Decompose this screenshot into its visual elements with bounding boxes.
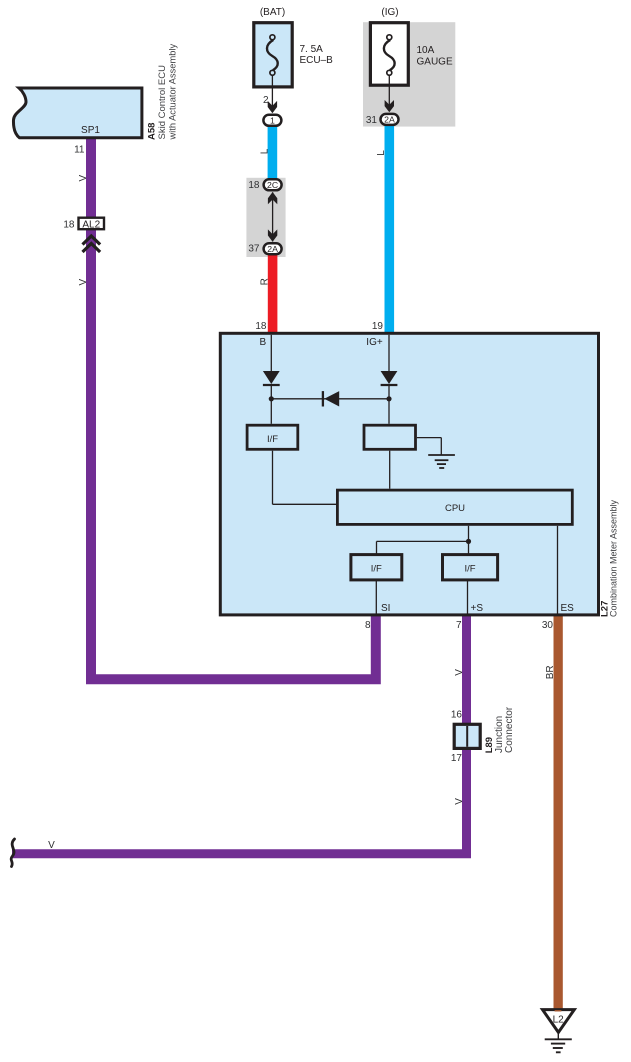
svg-text:A58: A58 bbox=[147, 123, 158, 140]
svg-text:7. 5A: 7. 5A bbox=[300, 44, 324, 55]
svg-text:18: 18 bbox=[248, 180, 260, 191]
svg-text:L: L bbox=[259, 148, 270, 154]
svg-text:37: 37 bbox=[248, 244, 260, 255]
svg-text:V: V bbox=[454, 669, 465, 676]
svg-text:17: 17 bbox=[451, 753, 463, 764]
svg-text:10A: 10A bbox=[417, 45, 435, 56]
svg-text:19: 19 bbox=[372, 321, 384, 332]
svg-text:7: 7 bbox=[456, 620, 462, 631]
svg-text:R: R bbox=[260, 278, 271, 285]
svg-text:V: V bbox=[78, 279, 89, 286]
svg-text:SI: SI bbox=[381, 603, 390, 614]
svg-text:2A: 2A bbox=[267, 244, 278, 254]
svg-text:BR: BR bbox=[545, 665, 556, 679]
svg-text:2A: 2A bbox=[384, 115, 395, 125]
svg-text:L2: L2 bbox=[553, 1014, 565, 1025]
svg-text:(IG): (IG) bbox=[381, 7, 398, 18]
svg-text:8: 8 bbox=[365, 620, 371, 631]
svg-text:Combination Meter Assembly: Combination Meter Assembly bbox=[609, 499, 619, 617]
svg-text:2C: 2C bbox=[267, 180, 278, 190]
svg-text:V: V bbox=[78, 175, 89, 182]
svg-text:SP1: SP1 bbox=[81, 125, 100, 136]
svg-text:ES: ES bbox=[561, 603, 575, 614]
svg-text:18: 18 bbox=[255, 321, 267, 332]
svg-text:31: 31 bbox=[366, 115, 378, 126]
svg-text:I/F: I/F bbox=[371, 564, 382, 575]
svg-text:I/F: I/F bbox=[464, 564, 475, 575]
svg-text:AL2: AL2 bbox=[82, 219, 100, 230]
svg-text:GAUGE: GAUGE bbox=[417, 56, 453, 67]
svg-text:1: 1 bbox=[270, 116, 275, 126]
svg-text:CPU: CPU bbox=[445, 503, 465, 514]
svg-text:16: 16 bbox=[451, 709, 463, 720]
svg-text:18: 18 bbox=[63, 219, 75, 230]
svg-text:30: 30 bbox=[542, 620, 554, 631]
svg-text:B: B bbox=[259, 337, 266, 348]
svg-text:Connector: Connector bbox=[504, 706, 515, 753]
svg-text:+S: +S bbox=[471, 603, 484, 614]
svg-text:ECU–B: ECU–B bbox=[300, 55, 334, 66]
svg-text:Skid Control ECU: Skid Control ECU bbox=[157, 65, 168, 140]
svg-text:11: 11 bbox=[74, 145, 85, 156]
svg-text:V: V bbox=[48, 840, 55, 851]
svg-text:I/F: I/F bbox=[267, 434, 278, 445]
svg-text:with Actuator Assembly: with Actuator Assembly bbox=[168, 44, 178, 141]
svg-text:V: V bbox=[454, 798, 465, 805]
svg-text:IG+: IG+ bbox=[366, 337, 383, 348]
svg-text:L: L bbox=[376, 150, 387, 156]
svg-text:(BAT): (BAT) bbox=[260, 7, 285, 18]
